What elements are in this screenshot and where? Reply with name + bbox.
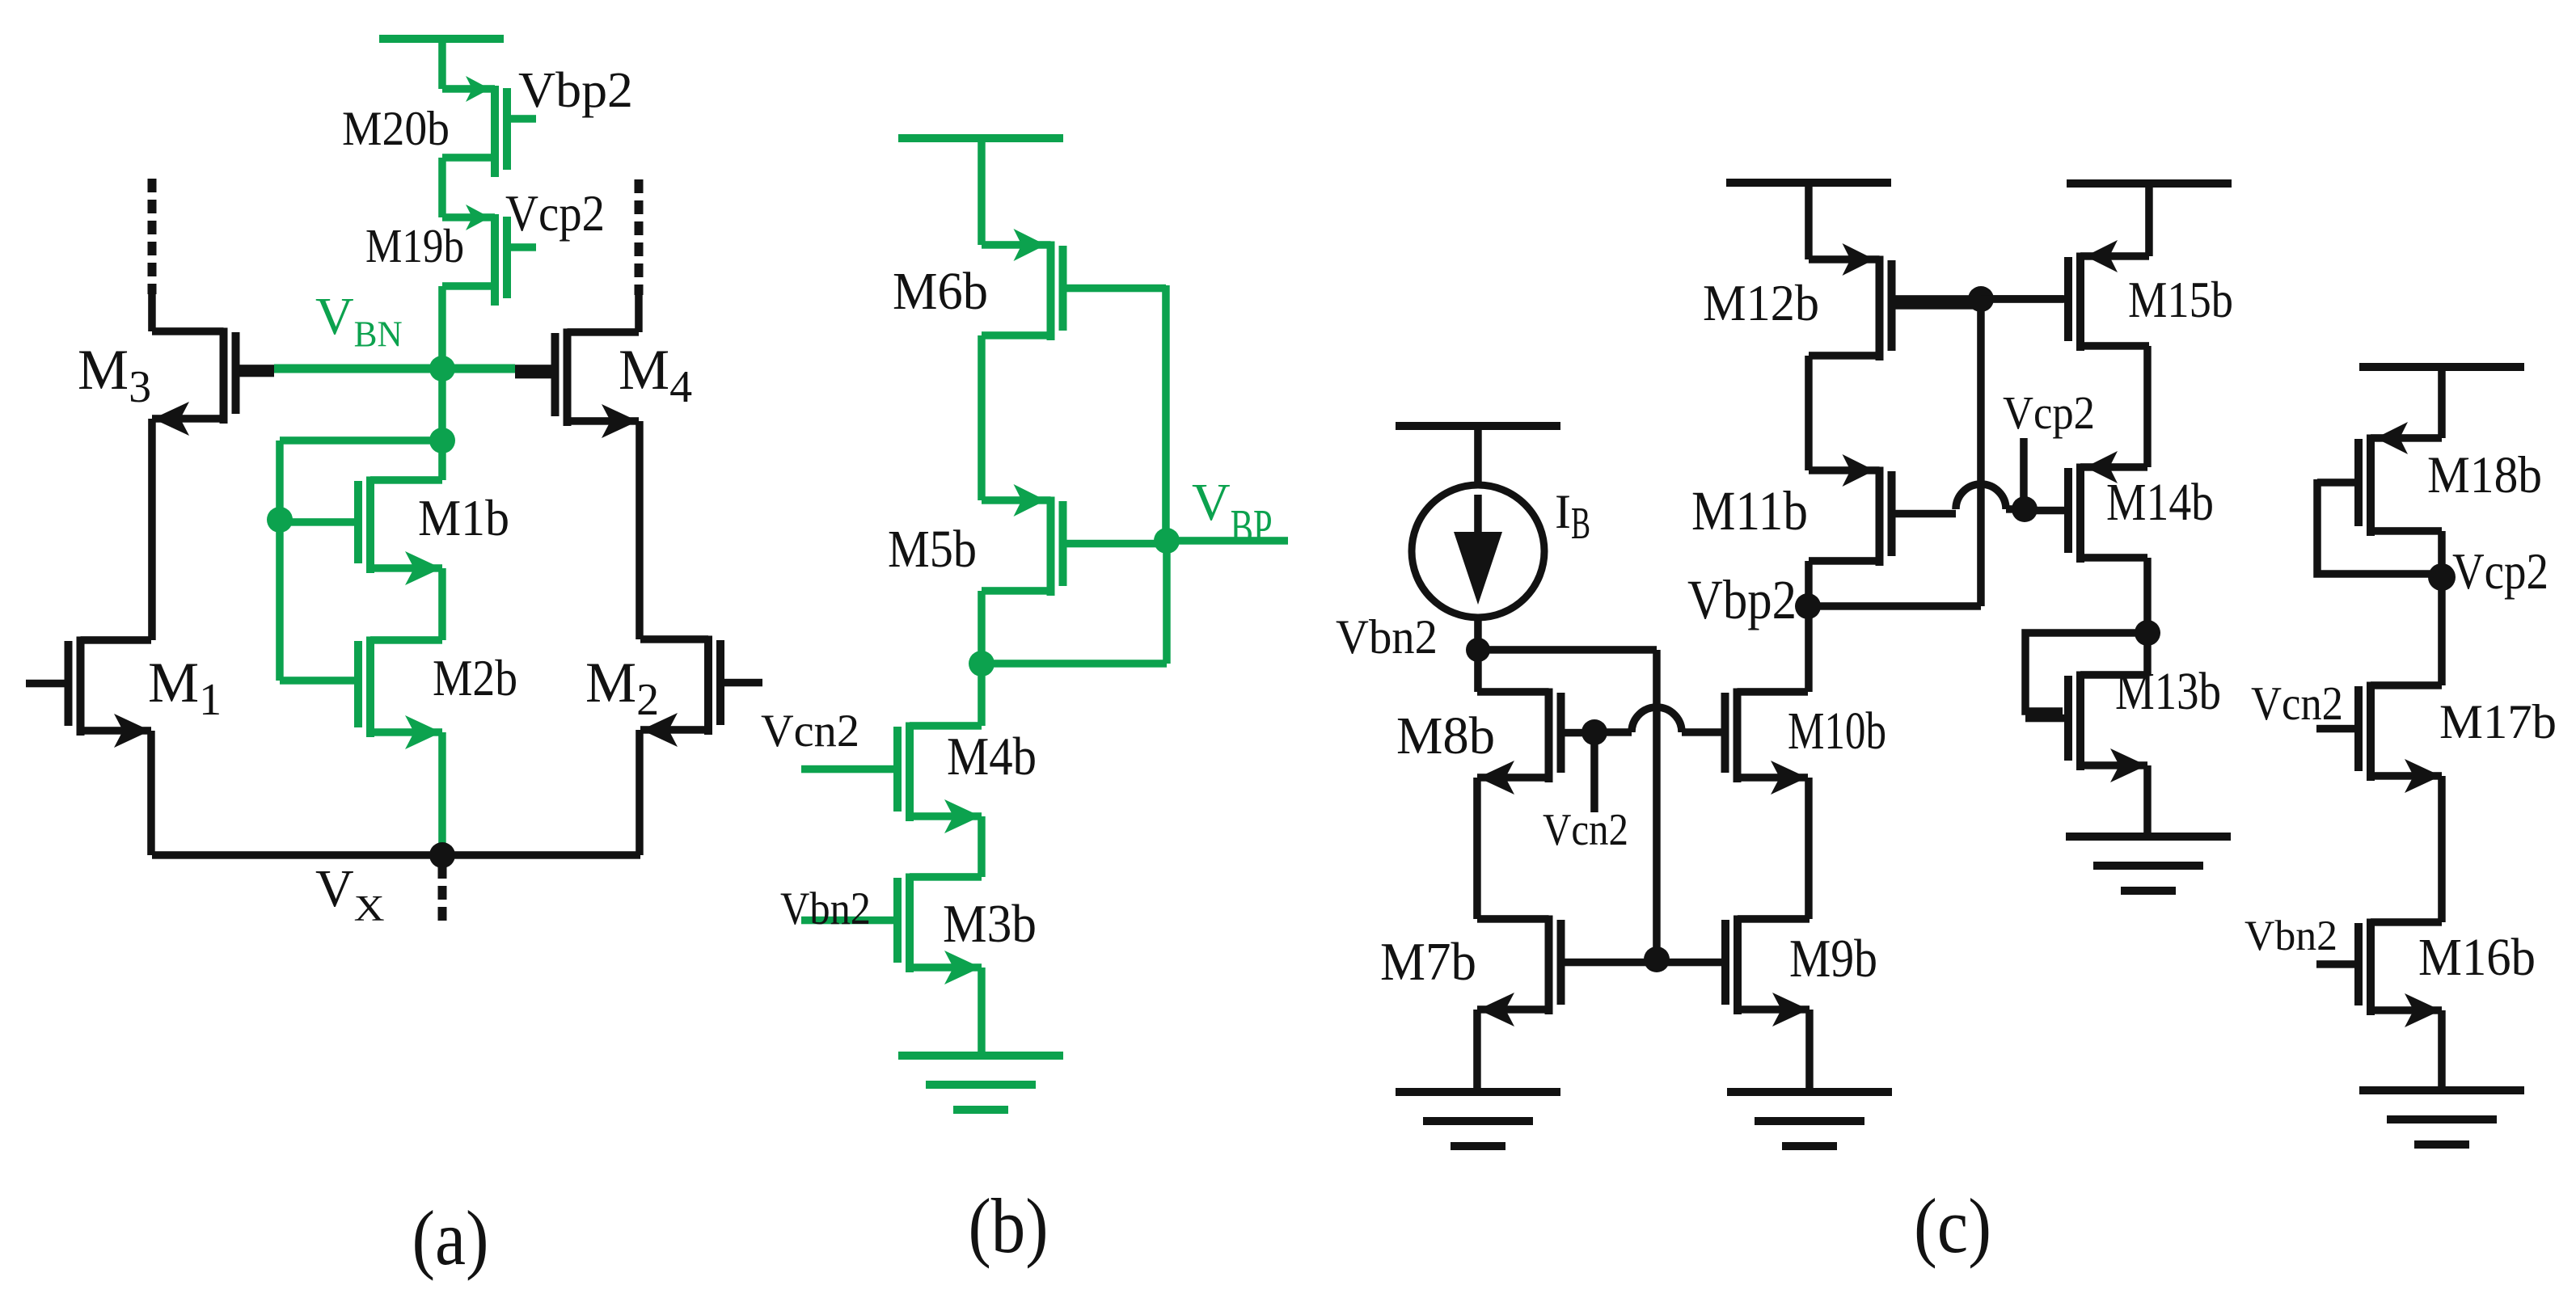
ground bbox=[1396, 1088, 1560, 1150]
node Vcp2 right bbox=[2428, 563, 2456, 591]
svg-text:M2b: M2b bbox=[433, 650, 517, 706]
wire M2b gate bbox=[280, 677, 354, 685]
wire bbox=[1805, 1010, 1814, 1092]
transistor M5b bbox=[982, 484, 1167, 596]
transistor M1b bbox=[280, 476, 442, 585]
wire bbox=[280, 436, 442, 445]
svg-text:Vbn2: Vbn2 bbox=[780, 883, 871, 934]
wire bbox=[2143, 558, 2152, 633]
wire bbox=[2143, 633, 2152, 675]
wire Vcn2 stub bbox=[1590, 732, 1598, 812]
wire gate M12b-M15b bbox=[1895, 295, 2063, 303]
node bbox=[2135, 620, 2160, 646]
node bbox=[1968, 286, 1994, 312]
svg-text:Vcn2: Vcn2 bbox=[1543, 805, 1628, 855]
transistor M10b bbox=[1721, 688, 1809, 795]
svg-text:Vcn2: Vcn2 bbox=[2251, 677, 2343, 730]
svg-text:M6b: M6b bbox=[893, 262, 988, 321]
transistor M19b bbox=[442, 204, 536, 306]
svg-text:M12b: M12b bbox=[1703, 275, 1819, 331]
svg-text:M9b: M9b bbox=[1789, 929, 1877, 989]
wire gate M11b-M14b with hop bbox=[1956, 484, 2006, 509]
node bbox=[429, 428, 455, 453]
svg-text:M20b: M20b bbox=[342, 102, 450, 155]
wire Vbp2 net bbox=[1808, 602, 1981, 610]
ground bbox=[2359, 1086, 2524, 1149]
wire M4 drain dashed bbox=[635, 179, 644, 295]
VDD rail IB bbox=[1396, 422, 1560, 430]
wire bbox=[2143, 346, 2152, 467]
svg-text:Vbp2: Vbp2 bbox=[518, 63, 633, 118]
svg-text:M11b: M11b bbox=[1691, 480, 1808, 542]
node Vcp2 gate node bbox=[2012, 496, 2038, 522]
wire VBN net bbox=[239, 365, 274, 373]
svg-text:Vbn2: Vbn2 bbox=[2244, 913, 2337, 959]
wire VBP net bbox=[1167, 537, 1288, 545]
svg-text:Vcp2: Vcp2 bbox=[505, 185, 605, 242]
current source IB bbox=[1412, 485, 1544, 618]
wire M4-M2 bbox=[636, 421, 644, 639]
transistor M3 bbox=[152, 327, 274, 436]
wire bbox=[2438, 577, 2446, 685]
svg-text:M17b: M17b bbox=[2439, 695, 2557, 748]
wire bbox=[1163, 541, 1171, 664]
svg-text:M16b: M16b bbox=[2418, 928, 2536, 987]
transistor M3b bbox=[801, 873, 982, 984]
wire bbox=[2438, 531, 2446, 577]
wire bbox=[1474, 616, 1482, 650]
transistor M18b bbox=[2317, 422, 2442, 536]
transistor M16b bbox=[2316, 918, 2442, 1027]
svg-text:(c): (c) bbox=[1914, 1182, 1991, 1269]
wire VX dashed bbox=[438, 865, 447, 928]
node bbox=[267, 507, 293, 533]
VDD rail (b) bbox=[898, 134, 1063, 142]
svg-text:(b): (b) bbox=[969, 1182, 1049, 1269]
transistor M4b bbox=[801, 722, 982, 833]
wire bbox=[982, 660, 1167, 668]
wire bbox=[148, 293, 156, 331]
VDD rail M15b bbox=[2067, 179, 2232, 188]
wire bbox=[1473, 778, 1481, 919]
svg-text:M13b: M13b bbox=[2115, 662, 2221, 721]
svg-text:Vbp2: Vbp2 bbox=[1687, 569, 1797, 630]
wire bbox=[636, 730, 644, 855]
wire bbox=[438, 369, 446, 441]
wire VX rail bbox=[152, 851, 640, 859]
wire bbox=[438, 286, 446, 369]
wire bbox=[635, 293, 643, 332]
transistor M4 bbox=[515, 328, 639, 438]
wire bbox=[1653, 650, 1661, 959]
svg-text:M1b: M1b bbox=[418, 490, 509, 546]
ground bbox=[2066, 833, 2231, 895]
transistor M6b bbox=[982, 229, 1166, 340]
wire bbox=[1805, 561, 1813, 606]
wire bbox=[2438, 367, 2446, 438]
transistor M11b bbox=[1809, 454, 1956, 566]
svg-text:M4b: M4b bbox=[947, 727, 1037, 786]
svg-text:(a): (a) bbox=[412, 1195, 489, 1281]
node VX bbox=[429, 842, 455, 868]
svg-text:Vcn2: Vcn2 bbox=[761, 706, 859, 757]
transistor M7b bbox=[1477, 915, 1657, 1027]
node bbox=[1581, 719, 1607, 745]
svg-text:M7b: M7b bbox=[1380, 932, 1476, 992]
VDD rail M18b bbox=[2359, 363, 2524, 371]
wire gate M8b-M10b with hop bbox=[1607, 728, 1632, 736]
wire bbox=[2145, 183, 2153, 256]
wire bbox=[1474, 650, 1482, 692]
wire bbox=[276, 520, 284, 681]
transistor M8b bbox=[1477, 688, 1594, 795]
wire bbox=[978, 967, 986, 1056]
node VBP bbox=[1154, 528, 1180, 554]
wire bbox=[2438, 1010, 2446, 1090]
transistor M9b bbox=[1657, 915, 1810, 1027]
node Vbp2 bbox=[1795, 593, 1821, 619]
wire Vbp2 to M10b drain bbox=[1805, 606, 1813, 692]
transistor M20b bbox=[442, 76, 536, 177]
wire bbox=[147, 731, 155, 855]
wire bbox=[438, 158, 446, 217]
wire bbox=[1977, 299, 1985, 606]
svg-text:M14b: M14b bbox=[2106, 473, 2214, 532]
wire M6b gate to VBP bbox=[1162, 285, 1170, 541]
svg-text:Vcp2: Vcp2 bbox=[2452, 542, 2549, 600]
transistor M15b bbox=[1981, 240, 2149, 351]
ground bbox=[898, 1052, 1063, 1114]
ground bbox=[1727, 1088, 1892, 1150]
wire bbox=[978, 591, 986, 664]
node bbox=[1644, 946, 1670, 972]
VDD rail M12b bbox=[1726, 179, 1891, 187]
svg-text:M15b: M15b bbox=[2128, 272, 2233, 328]
wire bbox=[148, 419, 156, 640]
wire bbox=[1805, 778, 1813, 919]
wire bbox=[438, 568, 446, 640]
svg-text:M19b: M19b bbox=[365, 219, 464, 272]
wire bbox=[438, 732, 446, 850]
wire bbox=[2438, 776, 2446, 922]
svg-text:M5b: M5b bbox=[888, 520, 977, 579]
svg-text:Vcp2: Vcp2 bbox=[2003, 386, 2095, 439]
wire bbox=[1474, 426, 1482, 488]
wire bbox=[978, 664, 986, 726]
transistor M1 bbox=[26, 636, 151, 748]
wire Vcp2 stub bbox=[2020, 438, 2028, 509]
node Vbn2 bbox=[1466, 638, 1490, 662]
wire M18b diode loop bbox=[2317, 479, 2442, 574]
transistor M17b bbox=[2316, 681, 2442, 793]
svg-text:M8b: M8b bbox=[1396, 706, 1495, 765]
wire bbox=[2143, 765, 2152, 837]
transistor M2b bbox=[354, 636, 442, 749]
svg-text:Vbn2: Vbn2 bbox=[1336, 610, 1438, 664]
wire M3 drain dashed bbox=[148, 179, 157, 294]
wire bbox=[1805, 356, 1813, 470]
transistor M13b bbox=[2025, 671, 2147, 782]
transistor M12b bbox=[1809, 243, 1981, 360]
svg-text:M10b: M10b bbox=[1788, 702, 1886, 761]
wire bbox=[276, 441, 284, 520]
wire M13b diode loop bbox=[2025, 633, 2147, 711]
wire bbox=[1473, 1010, 1481, 1092]
wire bbox=[438, 441, 446, 480]
wire bbox=[978, 335, 986, 500]
wire bbox=[438, 39, 446, 89]
wire bbox=[1478, 646, 1657, 654]
node VBN bbox=[429, 356, 455, 382]
transistor M14b bbox=[2025, 451, 2147, 563]
svg-text:M3b: M3b bbox=[943, 894, 1037, 954]
transistor M2 bbox=[640, 635, 762, 747]
svg-text:M18b: M18b bbox=[2427, 446, 2542, 504]
VDD rail (a) bbox=[379, 35, 504, 43]
node bbox=[969, 651, 995, 677]
wire bbox=[1805, 183, 1813, 259]
wire bbox=[978, 138, 986, 245]
wire bbox=[978, 816, 986, 877]
